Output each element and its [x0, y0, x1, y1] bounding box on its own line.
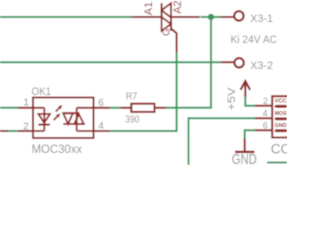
wire pin 6 — [94, 107, 110, 109]
wire net pin4 — [110, 130, 112, 132]
svg-text:1: 1 — [23, 98, 29, 109]
junction — [208, 14, 214, 20]
wire stub other component pin — [0, 130, 8, 132]
triac T1 lower triangle — [162, 17, 171, 31]
wire net to pin 2 — [8, 130, 18, 132]
svg-text:VCC: VCC — [275, 99, 287, 105]
wire pin A1 of triac — [132, 16, 161, 18]
phototriac top line — [63, 112, 79, 114]
connector pad VCC — [275, 105, 287, 108]
wire pin R7 left — [121, 107, 132, 109]
svg-text:X3-1: X3-1 — [250, 13, 273, 25]
wire pin R7 right — [155, 107, 166, 109]
wire gate net down to pin4 — [110, 53, 177, 132]
svg-text:2: 2 — [23, 121, 29, 132]
svg-text:6: 6 — [98, 98, 104, 109]
wire net GND to pin6 — [245, 130, 255, 138]
svg-text:GND: GND — [275, 123, 287, 129]
wire pin 4 of connector — [255, 117, 272, 119]
phototriac left triangle — [63, 113, 73, 124]
phototriac right triangle — [74, 114, 83, 124]
wire pin A2 of triac — [171, 16, 200, 18]
svg-text:CC: CC — [271, 141, 287, 156]
svg-text:Ki 24V AC: Ki 24V AC — [231, 34, 278, 46]
svg-text:2: 2 — [263, 96, 268, 106]
connector pad GND — [275, 129, 287, 132]
wire triac gate red — [171, 29, 177, 53]
light arrow 1 — [54, 113, 61, 120]
ground lead — [244, 138, 246, 151]
wire pin X3-2 — [221, 61, 234, 63]
svg-text:390: 390 — [125, 114, 139, 125]
svg-text:X3-2: X3-2 — [250, 60, 273, 72]
svg-text:R7: R7 — [126, 91, 138, 102]
svg-text:A1: A1 — [143, 2, 155, 15]
wire net bottom right — [267, 162, 287, 164]
connector pad MOS — [275, 117, 287, 120]
LED triangle — [38, 114, 50, 123]
triac T1 lower bar — [170, 17, 172, 31]
triac T1 upper triangle — [162, 3, 171, 17]
svg-text:A2: A2 — [172, 0, 184, 13]
wire pin 2 of connector — [255, 105, 272, 107]
wire net A2 to junction — [201, 16, 221, 18]
+5V symbol arrowhead — [241, 81, 251, 90]
light arrow 2 — [56, 105, 63, 112]
ground bar — [235, 151, 255, 153]
pin X3-2 circle — [234, 58, 243, 67]
wire pin 6 of connector — [255, 129, 272, 131]
resistor R7 box — [131, 104, 154, 112]
svg-text:MOC30xx: MOC30xx — [32, 142, 83, 156]
wire net to pin 1 — [0, 107, 18, 109]
svg-text:4: 4 — [263, 109, 268, 119]
+5V symbol lead — [244, 84, 246, 98]
phototriac bottom line — [63, 123, 84, 125]
phototriac internal wiring — [77, 108, 94, 131]
optocoupler OK1 box — [33, 98, 94, 139]
wire vertical junction to R7 — [166, 17, 211, 108]
svg-text:4: 4 — [98, 121, 104, 132]
wire net +5V to pin2 — [245, 97, 255, 106]
LED anode internal wiring — [33, 108, 44, 131]
LED cathode internal wiring — [33, 130, 44, 132]
wire net pin6 to R7 — [110, 107, 121, 109]
LED cathode bar — [38, 124, 50, 126]
wire pin X3-1 — [221, 16, 235, 18]
svg-text:GND: GND — [232, 152, 257, 165]
svg-text:OK1: OK1 — [32, 86, 52, 98]
wire net MOS down — [189, 118, 256, 165]
pin X3-1 circle — [234, 11, 243, 20]
wire net to triac A1 — [0, 16, 132, 18]
wire pin 2 — [18, 130, 33, 132]
wire pin 1 — [18, 107, 33, 109]
svg-text:6: 6 — [263, 120, 268, 130]
wire net X3-2 — [0, 61, 221, 63]
svg-text:MOS: MOS — [275, 111, 287, 117]
connector box — [272, 96, 294, 137]
svg-text:+5V: +5V — [226, 87, 238, 111]
triac T1 upper bar — [161, 3, 163, 17]
wire pin 4 — [94, 130, 110, 132]
